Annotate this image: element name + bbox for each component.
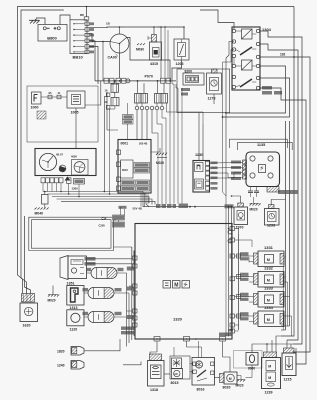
svg-text:4000: 4000 (71, 155, 77, 159)
svg-text:1331: 1331 (264, 245, 274, 250)
ground M040 (42, 195, 49, 205)
svg-text:1215: 1215 (284, 378, 292, 382)
svg-text:4B 07: 4B 07 (56, 153, 63, 157)
wire bundle vertical 5 (226, 66, 286, 113)
svg-text:M: M (267, 318, 270, 322)
BB10 pin 6 (85, 50, 89, 54)
feed junction 1331 (237, 254, 241, 258)
motor feed bus vertical (238, 234, 240, 330)
wires into 1239/1215 (266, 344, 268, 352)
1320 bottom pin (220, 337, 226, 342)
BB10 pin 1 (85, 22, 89, 26)
instrument cluster 0004 outline (35, 149, 96, 176)
fuse box 1203 (174, 39, 189, 60)
splice smudges on bundle (278, 190, 298, 194)
motor return wires to right bundle (284, 256, 286, 258)
wires 1351 to riser (87, 247, 132, 259)
wire third left riser to 1620 (28, 220, 30, 251)
1320 left pin (133, 264, 138, 268)
feed junction 1333 (237, 295, 241, 299)
1320 right pin (230, 314, 235, 318)
svg-text:M040: M040 (35, 212, 44, 216)
wire loop rectangle outer (29, 217, 113, 220)
splice boxes C14 (113, 216, 124, 220)
fuse holder 1000 (32, 92, 42, 104)
riser drops into splice row (157, 133, 159, 204)
1320 right pin (230, 329, 235, 333)
motor 1331 stub wires (249, 255, 254, 257)
wire bundle vertical 4 with 192 label (260, 57, 310, 352)
1135 hatch bottom (267, 187, 279, 193)
BB10 pin 4 (85, 39, 89, 43)
wire 1203 bottom down (172, 60, 182, 80)
junction box BB10 (70, 20, 87, 54)
svg-text:1334: 1334 (264, 305, 274, 310)
ground MC10 (battery negative) (29, 20, 40, 23)
motor 1332 stub wires (249, 276, 254, 278)
relay contact 1 (240, 47, 252, 55)
wire second feed top/left L-run (21, 10, 64, 294)
svg-text:0001: 0001 (121, 142, 129, 146)
1320 right pin (230, 277, 235, 281)
relay unit 1304 outline (232, 27, 260, 90)
svg-text:P070: P070 (145, 75, 153, 79)
svg-text:4315: 4315 (150, 62, 158, 66)
svg-text:1970: 1970 (236, 226, 244, 230)
svg-text:M020: M020 (250, 208, 258, 212)
wires into 1130 top (198, 126, 200, 161)
actuator motor rear-r (88, 312, 114, 323)
wires 1320 right pins to motor bus (235, 229, 239, 235)
junction pin circles right column (228, 230, 232, 234)
wires 1130 to 1135 (210, 162, 243, 165)
wire CA00 output down (119, 53, 121, 78)
svg-text:192: 192 (280, 53, 286, 57)
smudge V2B labels (219, 333, 232, 337)
svg-text:M: M (267, 258, 270, 262)
1320 left pin (133, 291, 138, 295)
secondary gauge (72, 160, 89, 176)
wires rail to fuses (137, 81, 139, 94)
heater control 8016 (192, 358, 215, 386)
1320 right pin (230, 323, 235, 327)
svg-text:M: M (174, 283, 178, 289)
AC unit 8015 (170, 356, 190, 379)
ground M020 bottom (237, 380, 245, 382)
wire 1B from BB10 to 1203 and CA00 area (89, 26, 184, 29)
svg-text:1005: 1005 (71, 111, 79, 115)
connector circles row (135, 106, 139, 110)
svg-text:B800: B800 (47, 35, 57, 40)
svg-text:6010: 6010 (122, 168, 128, 172)
svg-text:1320: 1320 (173, 317, 183, 322)
diagnostic connector 1620 (22, 294, 35, 303)
1320 right pin (230, 296, 235, 300)
svg-text:M020: M020 (48, 299, 56, 303)
bundle verticals mid-span (285, 121, 287, 330)
svg-text:M020: M020 (156, 161, 164, 165)
wire bundle hook into 8060 (252, 344, 293, 353)
1320 left pin (133, 323, 138, 327)
wire bundle vertical 2 (260, 31, 302, 344)
BB10 pin 2 (85, 28, 89, 32)
actuator motor rear-l (88, 288, 114, 299)
actuator motor front (91, 268, 117, 279)
1320 bottom pin (154, 337, 160, 342)
svg-text:8060: 8060 (248, 367, 255, 371)
1130 right pin column (206, 161, 210, 165)
svg-text:BB10: BB10 (73, 55, 84, 60)
svg-text:MB: MB (80, 14, 84, 17)
svg-text:8015: 8015 (171, 381, 179, 385)
ignition switch CA00 (110, 34, 129, 53)
feed junction 1334 (237, 314, 241, 318)
door lock switch unit 1351 (60, 256, 68, 280)
wire left pins of 1304 going left/down (226, 42, 234, 59)
splice blobs on main wire (156, 204, 161, 208)
cluster bottom connectors (41, 178, 45, 183)
svg-text:M020: M020 (236, 384, 244, 388)
1304 top feed wire from main (200, 10, 234, 29)
svg-text:1135: 1135 (257, 143, 265, 147)
svg-text:1318: 1318 (150, 388, 158, 392)
svg-text:CA00: CA00 (108, 56, 117, 60)
wires from ignition feed down to rail pins (157, 27, 161, 78)
icon row inside 1320 (163, 281, 171, 289)
wire bundle vertical 7 (260, 88, 306, 364)
relay coil 1 (242, 29, 253, 39)
enclosure dashed area (27, 86, 98, 142)
wire CA00 left feed down to rail (102, 42, 104, 81)
barcode mark (37, 111, 46, 119)
svg-text:1333: 1333 (264, 286, 274, 291)
BB10 pin labels (90, 22, 95, 25)
17B4 17B8 spliceboxes (123, 115, 134, 120)
double relay 1239 (264, 352, 277, 358)
transponder ring 1313 (67, 286, 84, 306)
blower motor 8020 (220, 374, 225, 383)
svg-text:8016: 8016 (197, 388, 205, 392)
riser wires center (107, 92, 118, 130)
wire BB10 lower pins going down (89, 41, 95, 81)
svg-text:C200: C200 (99, 224, 106, 228)
wire bundle vertical 6 (223, 78, 290, 117)
battery B800 (38, 25, 67, 42)
1320 left pin (133, 256, 138, 260)
ground M020 near 1135 (250, 204, 261, 206)
1304 left pins (232, 29, 235, 32)
svg-text:1332: 1332 (264, 266, 274, 271)
feed junction 1332 (237, 275, 241, 279)
BB10 pin 3 (85, 33, 89, 37)
svg-text:1351: 1351 (67, 281, 75, 285)
svg-text:1120: 1120 (70, 328, 78, 332)
svg-text:1203: 1203 (176, 62, 184, 66)
1320 left pin (133, 284, 138, 288)
horn 1120 (67, 310, 84, 326)
svg-text:1240: 1240 (57, 364, 65, 368)
relay 4315 (150, 42, 162, 60)
receiver 1970 (238, 203, 244, 207)
wire BB10 pin to down-left riser (89, 33, 110, 41)
svg-text:8020: 8020 (223, 386, 231, 390)
svg-text:M: M (267, 299, 270, 303)
wire main feed top/left L-run (18, 7, 295, 294)
1320 right pin (230, 227, 235, 231)
cluster wires down (42, 183, 44, 192)
wire 1000 to 1005 (41, 96, 67, 98)
wire bundle vertical 1 (281, 7, 294, 337)
1320 left pin (133, 309, 138, 313)
wire CA00 second output (127, 38, 171, 82)
1304 right pins (256, 29, 259, 32)
relay 1005 (67, 91, 85, 108)
svg-text:AC: AC (174, 372, 178, 376)
svg-text:C14: C14 (102, 217, 107, 221)
wires 1320 right side (228, 207, 230, 337)
module 1293 (269, 205, 275, 209)
bus row wires (43, 192, 232, 207)
wire BB10 top to main feed (86, 7, 88, 17)
ground M020 near 0001 (151, 148, 160, 152)
riser stubs into 1320 left pins (127, 257, 133, 259)
1135 left pins (243, 160, 247, 164)
motor 1334 stub wires (249, 315, 254, 317)
wires between cluster and 0001 (104, 97, 108, 192)
wire bundle vertical 3 (260, 44, 298, 340)
wires top bend from loop to risers (114, 246, 132, 248)
fuse boxes middle pair 1 (135, 94, 142, 104)
rail feeds down-left into relay 1005 (85, 81, 101, 105)
speedometer (39, 153, 56, 170)
module 0001 (118, 140, 151, 194)
relay contact 2 (240, 79, 252, 87)
svg-text:M030: M030 (136, 48, 144, 52)
4315 pin stack (152, 35, 157, 43)
riser junction blobs (127, 267, 136, 271)
bracket wires above 1135 (230, 139, 288, 148)
feeder fuse pair left (97, 81, 99, 84)
fuse boxes middle pair 2 (155, 94, 162, 104)
svg-text:55V 4B: 55V 4B (133, 206, 142, 210)
sensor 8060 (246, 353, 258, 366)
wire battery plus up to BB10 (60, 15, 70, 25)
1320 right pin (230, 238, 235, 242)
enclosure around 8060 (234, 351, 263, 369)
ground M030 (137, 43, 145, 45)
bottom bus wires (135, 338, 232, 340)
svg-text:200 4B: 200 4B (139, 142, 147, 146)
fuel gauge dark (59, 166, 66, 172)
capacitor pair (250, 187, 252, 192)
svg-text:1300: 1300 (72, 187, 79, 191)
svg-text:1293: 1293 (267, 224, 275, 228)
central locking ECU 1320 (135, 224, 232, 340)
1320 bottom pin (184, 337, 190, 342)
1320 left pin (133, 316, 138, 320)
wire 1273 to down (213, 94, 215, 104)
wire battery minus to ground (36, 18, 45, 25)
splices below riser (121, 327, 134, 330)
wires 1820/1240 to risers (84, 339, 120, 351)
svg-text:M: M (268, 376, 271, 380)
pump 1215 (284, 348, 295, 353)
outer box around 8200 and 1273 (177, 69, 230, 113)
svg-text:M: M (268, 365, 271, 369)
relay coil 2 (242, 60, 253, 70)
svg-text:1239: 1239 (265, 391, 273, 395)
1320 right pin (230, 254, 235, 258)
warning lamp (65, 177, 71, 181)
svg-text:1620: 1620 (23, 324, 31, 328)
svg-text:1820: 1820 (57, 350, 65, 354)
clock 1273 (207, 73, 222, 94)
svg-text:M: M (229, 377, 232, 381)
drops into 8015/8016 tops (173, 347, 175, 356)
hazard flasher 1318 (150, 354, 162, 361)
wire 1005 down to cluster (75, 108, 77, 149)
svg-text:M: M (267, 279, 270, 283)
left riser bundle (126, 273, 128, 347)
0001 bottom pin drops (140, 193, 142, 207)
motor 1333 stub wires (249, 296, 254, 298)
BB10 pin 5 (85, 45, 89, 49)
svg-text:1313: 1313 (70, 306, 78, 310)
splice labels right of 1304 (262, 86, 272, 90)
ground M020 left (48, 295, 59, 297)
svg-text:1000: 1000 (31, 106, 39, 110)
wire 1203 top to 1B feed (183, 27, 185, 39)
wires 1970/1893 up (232, 196, 241, 203)
